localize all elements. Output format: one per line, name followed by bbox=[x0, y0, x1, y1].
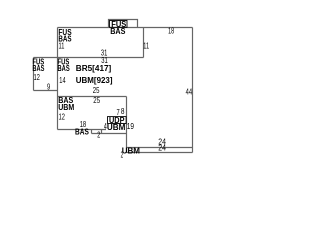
svg-text:BAS: BAS bbox=[58, 63, 70, 73]
svg-text:BR5[417]: BR5[417] bbox=[76, 63, 112, 73]
svg-text:44: 44 bbox=[186, 87, 193, 97]
svg-text:19: 19 bbox=[127, 121, 134, 131]
wire 25-dim horizontal bbox=[58, 96, 127, 98]
wire left small box bottom bbox=[34, 90, 58, 92]
wire porch right vertical bbox=[126, 97, 128, 153]
svg-text:24: 24 bbox=[158, 142, 166, 152]
wire bottom strip bottom bbox=[127, 152, 193, 154]
wire left main vertical bbox=[57, 28, 59, 130]
svg-text:25: 25 bbox=[93, 95, 100, 105]
wire bump left vertical bbox=[91, 130, 93, 134]
node UDP label box bbox=[108, 117, 127, 124]
svg-text:BAS: BAS bbox=[75, 126, 89, 136]
svg-text:11: 11 bbox=[143, 41, 149, 51]
wire lower box bottom bbox=[58, 129, 107, 131]
svg-text:12: 12 bbox=[34, 72, 40, 82]
svg-text:9: 9 bbox=[47, 81, 50, 91]
svg-text:BAS: BAS bbox=[110, 26, 125, 36]
svg-text:11: 11 bbox=[59, 41, 65, 51]
svg-text:2: 2 bbox=[121, 150, 124, 160]
svg-text:14: 14 bbox=[59, 75, 66, 85]
svg-text:UBM[923]: UBM[923] bbox=[76, 75, 113, 85]
svg-text:2: 2 bbox=[97, 129, 100, 139]
wire bump bottom horizontal bbox=[92, 133, 127, 135]
wire left small box left vertical bbox=[33, 58, 35, 91]
wire bump right vertical bbox=[101, 130, 103, 134]
svg-text:18: 18 bbox=[168, 26, 174, 36]
wire top main horizontal bbox=[58, 27, 193, 29]
wire right-of-upper-section vertical bbox=[143, 28, 145, 58]
svg-text:25: 25 bbox=[93, 85, 100, 95]
wire 31-dim horizontal bbox=[34, 57, 144, 59]
svg-text:UBM: UBM bbox=[107, 122, 126, 132]
wire right main vertical bbox=[192, 28, 194, 153]
svg-text:12: 12 bbox=[59, 111, 66, 121]
node FUS label box top bbox=[110, 21, 128, 28]
svg-text:UBM: UBM bbox=[122, 145, 140, 155]
section FUS top bump outline bbox=[109, 20, 138, 28]
wire bottom strip top bbox=[127, 147, 193, 149]
